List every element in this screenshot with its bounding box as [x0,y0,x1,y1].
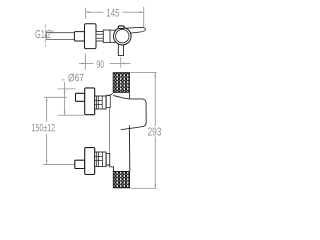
dimension 150 text [32,124,55,131]
upper union nut [76,93,85,101]
dim 67 vertical line [64,82,66,115]
body connector A [96,32,103,42]
inlet axis dashed line [44,25,46,47]
mixer body and handle profile [113,96,146,130]
upper wall section hatch [113,73,129,93]
inlet pipe G1/2 [46,33,75,40]
label G1/2" [35,30,53,39]
lower wall section hatch [113,172,129,188]
lower union nut [75,160,85,168]
dimension 145 arrowheads [86,11,143,13]
upper escutcheon [85,88,95,115]
label diameter 67 [68,74,83,82]
upper connector details [95,96,103,109]
dimension 90 line [79,54,131,71]
hatch corner drop line [128,93,130,99]
dimension 145 line [86,7,144,27]
lower escutcheon [85,148,95,175]
union nut (top view) [74,32,84,41]
outlet pipe (top view) [118,45,123,56]
bridge lines to valve body [110,30,117,42]
dimension 145 text [107,9,119,17]
dimension 293 [130,72,156,188]
dim 67 label tick [62,79,65,81]
body back edge at wall [109,97,111,153]
lever hub cap [118,26,124,29]
dim 67 arrowhead [64,89,66,115]
valve body circle inner [116,30,129,43]
lower wall step [110,165,114,171]
lever handle (top view) [124,27,146,33]
dim 67 extension bottom [58,114,85,116]
dimension 150+-12 [43,97,74,164]
upper connector block [95,96,106,109]
lower connector details [95,152,103,167]
dim 67 extension top [58,88,76,90]
body front column edge [128,125,130,171]
body top link curve [106,93,112,95]
dimension 90 text [97,60,104,68]
connector A detail lines [96,34,103,38]
escutcheon rosette (top view) [85,24,97,49]
lower connector block [95,152,106,167]
lower wall stub [106,153,110,165]
dimension 90 arrowheads [82,62,125,64]
body connector B [103,30,110,43]
dimension 293 arrowheads [154,73,156,189]
valve body circle outer [114,27,132,45]
dimension 293 text [148,127,161,135]
dimension 150 arrowheads [46,98,48,165]
outlet axis extension [120,57,122,68]
upper wall stub [106,96,110,108]
